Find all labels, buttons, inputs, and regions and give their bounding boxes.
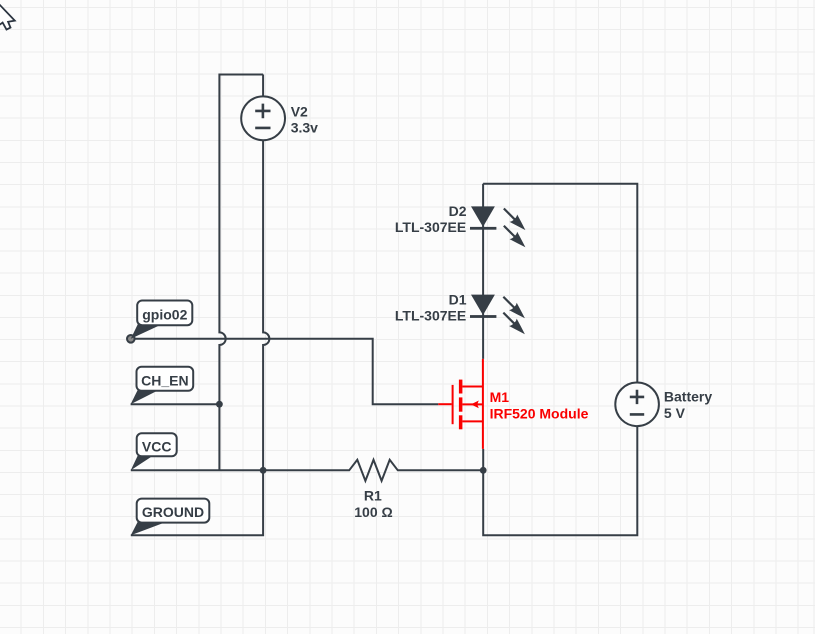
svg-text:IRF520 Module: IRF520 Module <box>490 405 589 421</box>
svg-text:gpio02: gpio02 <box>142 306 187 322</box>
svg-text:3.3v: 3.3v <box>291 119 318 135</box>
svg-text:100 Ω: 100 Ω <box>354 504 392 520</box>
svg-text:CH_EN: CH_EN <box>141 372 188 388</box>
svg-text:M1: M1 <box>490 389 510 405</box>
svg-text:LTL-307EE: LTL-307EE <box>395 308 466 324</box>
svg-text:GROUND: GROUND <box>142 504 204 520</box>
svg-text:D1: D1 <box>449 292 467 308</box>
svg-text:LTL-307EE: LTL-307EE <box>395 219 466 235</box>
svg-text:V2: V2 <box>291 103 308 119</box>
svg-text:D2: D2 <box>449 203 467 219</box>
svg-text:Battery: Battery <box>664 389 712 405</box>
svg-text:R1: R1 <box>364 488 382 504</box>
svg-text:VCC: VCC <box>142 439 172 455</box>
svg-text:5 V: 5 V <box>664 405 686 421</box>
